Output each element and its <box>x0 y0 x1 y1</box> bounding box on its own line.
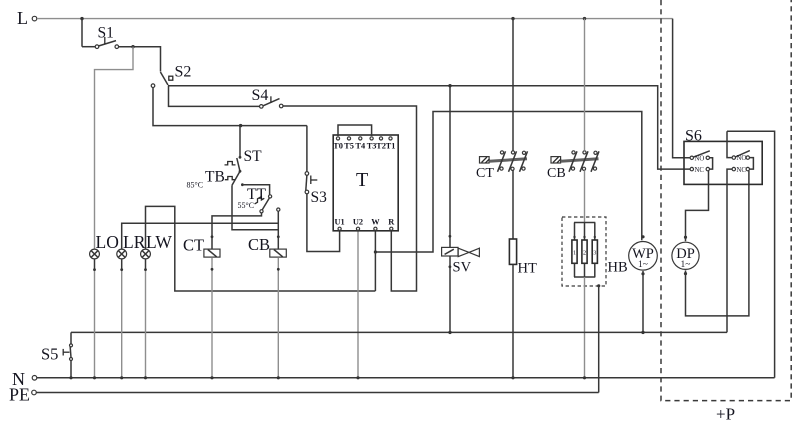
wire N bracket <box>727 131 775 377</box>
wire CB pole feed <box>584 19 586 223</box>
timer T top pins <box>336 137 392 140</box>
wire LR lamp to CB node bus <box>122 223 279 249</box>
svg-text:CT: CT <box>476 166 494 181</box>
dashed boundary +P <box>661 0 791 401</box>
svg-text:CB: CB <box>547 166 566 181</box>
wire W pin riser to WP <box>375 112 641 253</box>
svg-text:1~: 1~ <box>681 260 691 270</box>
timer T box <box>333 135 398 231</box>
svg-text:S1: S1 <box>98 25 114 42</box>
wire L drop to S1 <box>81 19 83 47</box>
svg-text:HB: HB <box>608 260 628 276</box>
svg-text:U2: U2 <box>353 218 363 227</box>
svg-text:LR: LR <box>123 232 146 252</box>
HB element 2 <box>582 240 587 263</box>
label HB element numbers <box>573 249 596 256</box>
switch S4 <box>260 96 284 108</box>
wire S4 output to timer R pin <box>283 106 417 291</box>
wire S6 right NC to bottom bus <box>727 169 732 332</box>
svg-text:55°C: 55°C <box>238 201 255 210</box>
thermostat TB 85C <box>225 170 278 230</box>
wire DP bottom to S6 right output <box>686 171 749 316</box>
svg-text:S6: S6 <box>685 128 702 145</box>
heater HT <box>509 239 516 264</box>
svg-text:S3: S3 <box>311 189 328 206</box>
svg-text:+P: +P <box>716 405 735 424</box>
switch S2 <box>151 72 173 87</box>
thermostat TT 55C changeover <box>241 183 280 213</box>
wire TT to CB coil <box>277 211 279 248</box>
HB element stubs top <box>575 223 595 241</box>
wire S3 to U1 pin <box>307 194 340 252</box>
HB top bus <box>574 222 595 224</box>
HB element 3 <box>592 240 597 263</box>
svg-text:S5: S5 <box>41 345 58 364</box>
node CT coil connector <box>211 235 214 238</box>
wire L to S6 NO <box>673 19 690 158</box>
motor DP <box>672 236 699 276</box>
relay coil CB <box>270 249 287 378</box>
svg-text:NO: NO <box>695 155 705 162</box>
switch S3 <box>305 126 317 194</box>
timer T bottom pins <box>338 227 393 230</box>
motor WP <box>629 235 658 332</box>
svg-text:T4: T4 <box>355 141 366 150</box>
svg-text:L: L <box>17 8 28 28</box>
node L-CT junction <box>511 17 514 20</box>
contactor contact CT <box>480 151 528 172</box>
svg-text:CT: CT <box>183 236 204 255</box>
svg-text:3: 3 <box>593 249 596 256</box>
svg-text:S2: S2 <box>175 64 192 81</box>
node L-CB junction <box>583 17 586 20</box>
svg-text:TB: TB <box>205 169 225 186</box>
svg-text:HT: HT <box>518 261 537 277</box>
HB element stubs bottom and bottom bus <box>575 263 595 277</box>
S6 right microswitch <box>732 151 753 171</box>
svg-text:NO: NO <box>737 155 747 162</box>
svg-text:T0: T0 <box>333 141 343 150</box>
thermal switch ST <box>225 126 242 172</box>
terminal N <box>32 376 37 381</box>
wire LW lamp to W rail <box>146 206 376 291</box>
svg-text:T: T <box>356 169 368 191</box>
node L-S1 junction <box>80 17 83 20</box>
node WP on bus <box>641 331 644 334</box>
wire N bus <box>37 377 775 379</box>
contactor contact CB <box>551 151 599 172</box>
svg-text:T3: T3 <box>367 141 377 150</box>
wire LO lamp feed jog <box>95 47 134 250</box>
N bus junction nodes <box>69 376 586 379</box>
svg-text:CB: CB <box>248 235 270 254</box>
switch S1 <box>82 37 119 49</box>
lamp LO <box>90 249 100 378</box>
svg-text:T1: T1 <box>386 141 396 150</box>
svg-text:S4: S4 <box>252 87 269 104</box>
wire HB to N <box>584 277 586 378</box>
lamp LW <box>141 249 151 378</box>
solenoid valve SV <box>442 84 480 332</box>
switch S5 <box>63 332 72 377</box>
svg-text:1: 1 <box>573 249 576 256</box>
svg-text:ST: ST <box>244 148 263 165</box>
svg-text:T2: T2 <box>376 141 386 150</box>
wire PE bus <box>37 392 599 394</box>
wire S6 right NO feed from N bracket <box>727 131 732 157</box>
svg-text:85°C: 85°C <box>187 181 204 190</box>
svg-text:NC: NC <box>695 167 705 174</box>
wire DP top to S6 left output <box>686 171 709 242</box>
terminal L <box>32 16 37 21</box>
heater bank HB dashed enclosure <box>562 217 606 286</box>
svg-text:2: 2 <box>583 249 586 256</box>
wire U2 pin to N <box>357 231 359 378</box>
node ST-chain junction <box>239 124 242 127</box>
S6 left microswitch <box>690 151 713 171</box>
wire HT to N <box>512 264 514 377</box>
label T bottom pins <box>334 218 395 227</box>
svg-text:R: R <box>388 218 395 227</box>
timer T jumper T0-T3 <box>338 125 372 136</box>
terminal PE <box>32 390 37 395</box>
wire bottom control bus y332 <box>71 331 727 333</box>
wire CT pole feed <box>512 19 514 239</box>
lamp LR <box>117 249 127 378</box>
node SV on bus <box>448 331 451 334</box>
label T top pins <box>333 141 395 150</box>
wire HB enclosure to PE <box>597 284 600 287</box>
svg-text:NC: NC <box>737 167 747 174</box>
node S1out junction <box>131 45 134 48</box>
relay coil CT <box>204 249 220 378</box>
svg-text:LW: LW <box>146 232 172 252</box>
wire S2 NO output rail y86 <box>168 86 690 169</box>
HB element 1 <box>572 240 577 263</box>
wire S1 output to S2 <box>119 47 161 72</box>
wire W pin drop <box>374 252 376 291</box>
node W junction <box>374 250 377 253</box>
wire S2 to S4 feed <box>169 86 260 106</box>
wire TT to CT coil <box>212 213 262 249</box>
wire S2 NC rail y125 <box>153 88 307 126</box>
svg-text:LO: LO <box>96 232 119 252</box>
svg-text:SV: SV <box>453 260 472 276</box>
svg-text:W: W <box>371 218 380 227</box>
node CB coil connector <box>277 235 280 238</box>
svg-text:PE: PE <box>9 385 30 405</box>
svg-text:U1: U1 <box>334 218 344 227</box>
svg-text:1~: 1~ <box>638 260 648 270</box>
wire L bus (top horizontal) <box>37 18 673 20</box>
svg-text:T5: T5 <box>344 141 354 150</box>
switch unit S6 box <box>684 141 762 184</box>
